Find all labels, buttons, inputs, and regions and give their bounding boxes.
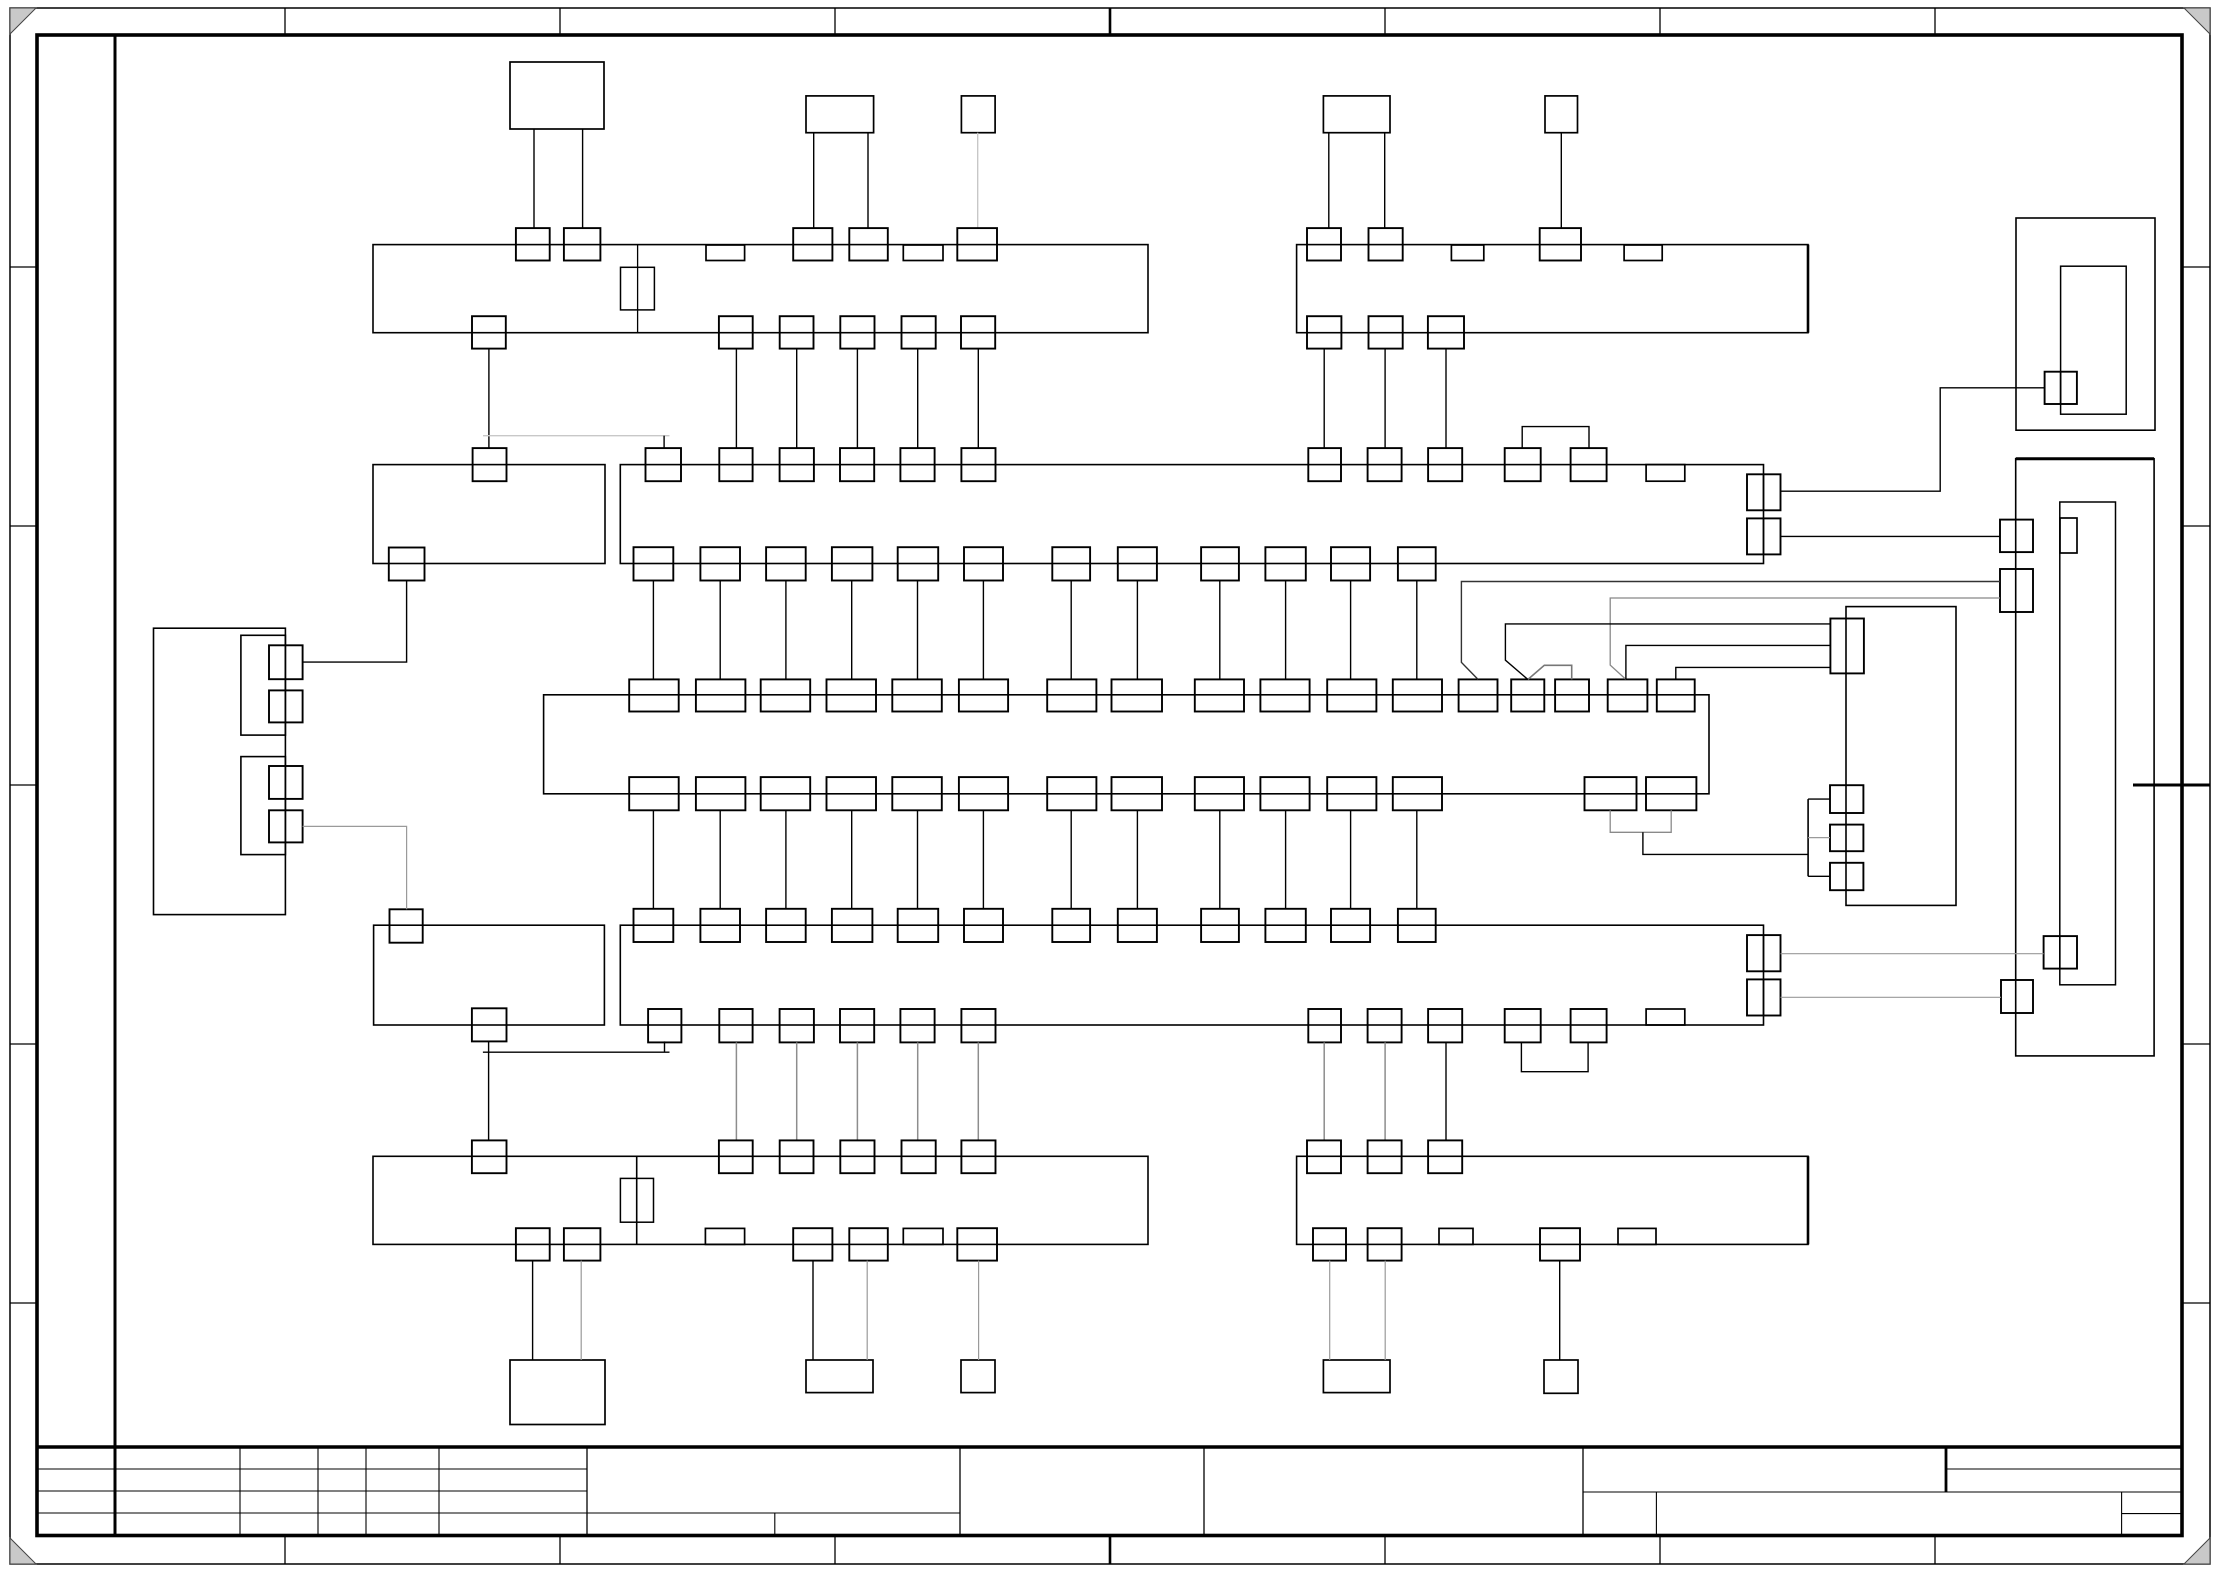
pin B2 bottom 7 xyxy=(1052,547,1090,580)
wire D2 bottom 9 down xyxy=(1445,1042,1447,1140)
pin A1 top 4 xyxy=(849,228,888,260)
pin B2 top 10 xyxy=(1505,448,1541,481)
pin K4 xyxy=(1830,863,1863,890)
module A1 body xyxy=(373,245,1148,333)
pin D2 bottom 5 xyxy=(900,1009,934,1042)
pin E2 top 2 xyxy=(1368,1140,1402,1173)
pin H2 inner bottom xyxy=(2044,936,2077,969)
wire A1.1 to B1 via node xyxy=(488,349,490,449)
module A2 right edge accent xyxy=(1807,245,1810,333)
pin E1 top 6 xyxy=(961,1140,995,1173)
pin B2 top 6 xyxy=(961,448,995,481)
pin A2 top 3 xyxy=(1540,228,1581,260)
connector box X3 small xyxy=(961,96,995,133)
pin K3 xyxy=(1830,825,1863,852)
pin D2 top 11 xyxy=(1331,909,1370,942)
wire from jumper C13-14 to K bracket xyxy=(1643,832,1808,854)
module E1 internal divider xyxy=(636,1156,638,1244)
top border column tick 2 xyxy=(559,8,561,35)
pin B2 bottom 3 xyxy=(766,547,806,580)
wire D2 bottom 7 down grey xyxy=(1323,1042,1325,1140)
pin B2 bottom 5 xyxy=(898,547,939,580)
pin B2 top 9 xyxy=(1428,448,1462,481)
wire D2 bottom 5 down grey xyxy=(917,1042,919,1140)
pin D2 right side upper pair xyxy=(1747,935,1781,971)
pin G2 xyxy=(269,690,303,722)
wire C bottom 11 down xyxy=(1350,810,1352,909)
stub bracket to K4 xyxy=(1808,875,1830,877)
right border row tick thick at y785 xyxy=(2133,784,2210,787)
pin C bottom 2 xyxy=(696,777,746,810)
wire E2 to X9 pin2 grey xyxy=(1384,1261,1386,1360)
pin A1 top 5 xyxy=(957,228,997,260)
left border row tick 3 xyxy=(10,784,37,786)
title block column at x775 lower xyxy=(774,1513,776,1536)
pin D2 top 3 xyxy=(766,909,806,942)
corner trim triangle top-left xyxy=(10,8,36,34)
wire B2 bottom 1 down xyxy=(652,581,654,680)
title block small cell row at y1514 xyxy=(2122,1513,2182,1515)
module E1 body xyxy=(373,1156,1148,1244)
pin C top 14 xyxy=(1511,679,1544,711)
title block row line 3 xyxy=(37,1512,960,1514)
left reference column divider xyxy=(114,35,117,1536)
title block column at x1204 xyxy=(1203,1447,1205,1536)
jumper bracket under pins C bottom 13-14 grey xyxy=(1610,810,1671,832)
corner trim triangle bottom-left xyxy=(10,1538,36,1564)
pin E2 bottom 1 xyxy=(1313,1228,1346,1260)
branch wire tick up to pin D2 bottom 1 xyxy=(664,1041,666,1052)
title block thick divider at x1946 xyxy=(1945,1447,1948,1492)
wire B2 bottom 4 down xyxy=(851,581,853,680)
pin B2 right side upper pair xyxy=(1747,474,1781,510)
pin D2 top 10 xyxy=(1265,909,1305,942)
pin H2 left 4 xyxy=(2001,980,2033,1013)
pin D2 top 1 xyxy=(634,909,674,942)
pin D2 top 12 xyxy=(1398,909,1436,942)
pin C bottom 11 xyxy=(1327,777,1376,810)
title block column at x318 xyxy=(317,1447,319,1536)
pin B2 bottom 10 xyxy=(1265,547,1305,580)
wire B2 bottom 8 down xyxy=(1136,581,1138,680)
pin D2 bottom 6 xyxy=(961,1009,995,1042)
module B2 body xyxy=(620,465,1763,564)
wire B2 right lower to H2 pin1 xyxy=(1781,535,2001,537)
pin C bottom 12 xyxy=(1393,777,1442,810)
pin G1 xyxy=(269,645,303,679)
left border row tick 1 xyxy=(10,266,37,268)
stub bracket to K2 xyxy=(1808,798,1830,800)
wire B2 bottom 10 down xyxy=(1285,581,1287,680)
connector box X7 bottom xyxy=(806,1360,873,1393)
pin A2 top 1 xyxy=(1307,228,1341,260)
pin E2 top 1 xyxy=(1307,1140,1341,1173)
wire D2 right lower to H2 pin4 grey xyxy=(1781,996,2002,998)
pin C top 1 xyxy=(629,679,679,711)
title block column at x1583 xyxy=(1582,1447,1584,1536)
pin C top 16 xyxy=(1608,679,1648,711)
panel box H2 top edge accent xyxy=(2016,457,2154,460)
title block column at x366 xyxy=(365,1447,367,1536)
branch wire drop to pin B2 top 1 xyxy=(663,436,665,448)
pin C bottom 1 xyxy=(629,777,679,810)
pin D2 top 8 xyxy=(1118,909,1157,942)
pin C top 4 xyxy=(827,679,877,711)
pin A1 top 3 xyxy=(793,228,832,260)
pin B2 bottom 1 xyxy=(634,547,674,580)
wire B1 bottom to G1 xyxy=(303,581,407,663)
pin B1 bottom xyxy=(389,548,425,581)
wire X1 pin1 down xyxy=(533,129,535,228)
panel box H1 inner rack xyxy=(2061,266,2127,414)
pin E1 bottom 2 xyxy=(564,1228,601,1260)
bus bracket left of K xyxy=(1807,799,1809,876)
wire A2 bottom 1 down xyxy=(1323,349,1325,449)
pin C bottom 5 xyxy=(892,777,942,810)
pin B2 right side upper pair divider xyxy=(1763,474,1765,510)
wire B2 bottom 5 down xyxy=(917,581,919,680)
connector box X5 small xyxy=(1545,96,1578,133)
pin C bottom 3 xyxy=(761,777,811,810)
wire C bottom 5 down xyxy=(917,810,919,909)
wire A1 bottom 6 down xyxy=(977,349,979,449)
wire C bottom 9 down xyxy=(1219,810,1221,909)
top border column tick 5 xyxy=(1384,8,1386,35)
wire X1 pin2 down xyxy=(582,129,584,228)
pin A1 bottom 5 xyxy=(902,316,936,348)
branch wire grey to strip B first pin xyxy=(483,435,670,437)
pin B2 top 7 xyxy=(1308,448,1341,481)
pin E1 top 3 xyxy=(780,1140,814,1173)
pin E1 top 1 xyxy=(472,1140,507,1173)
fuse F2 on module E1 xyxy=(620,1178,653,1222)
title block column at x960 xyxy=(959,1447,961,1536)
pin D1 bottom xyxy=(472,1008,507,1041)
wire B2 right upper to H1 pin xyxy=(1781,388,2045,491)
pin D2 bottom 3 xyxy=(780,1009,814,1042)
wire G4 to D1 top grey xyxy=(303,826,407,909)
pin B2 top 3 xyxy=(780,448,814,481)
pin D2 top 6 xyxy=(964,909,1003,942)
pin D2 bottom 11 xyxy=(1571,1009,1607,1042)
title block column at x439 xyxy=(438,1447,440,1536)
pin A1 bottom 2 xyxy=(719,316,753,348)
wire C bottom 6 down xyxy=(982,810,984,909)
connector box X2 top-middle xyxy=(806,96,874,133)
pin D2 bottom 2 xyxy=(719,1009,752,1042)
pin E1 bottom 5 xyxy=(957,1228,997,1260)
right border row tick 3 xyxy=(2182,1043,2210,1045)
connector box X8 small bottom xyxy=(961,1360,995,1393)
pin E2 bottom stub 2 xyxy=(1618,1228,1656,1244)
wire E1 to X6 pin1 xyxy=(532,1261,534,1360)
pin D2 bottom 10 xyxy=(1505,1009,1541,1042)
pin B2 bottom 11 xyxy=(1331,547,1370,580)
pin B2 bottom 12 xyxy=(1398,547,1436,580)
pin C bottom 6 xyxy=(959,777,1008,810)
module C body xyxy=(544,695,1709,794)
module E2 right edge accent xyxy=(1807,1156,1810,1244)
pin C top 7 xyxy=(1047,679,1096,711)
wire C bottom 1 down xyxy=(652,810,654,909)
pin E1 bottom stub 2 xyxy=(903,1228,943,1244)
bottom border column tick 6 xyxy=(1659,1536,1661,1565)
wire X3 down grey xyxy=(977,133,979,228)
title block row line right section xyxy=(1583,1491,2182,1493)
pin C bottom 10 xyxy=(1260,777,1309,810)
pin C top 12 xyxy=(1393,679,1442,711)
branch wire to strip D2 first pin xyxy=(483,1051,670,1053)
pin E1 top 5 xyxy=(902,1140,936,1173)
wire X4 pin1 down xyxy=(1328,133,1330,228)
corner trim triangle top-right xyxy=(2184,8,2210,34)
pin A2 bottom 1 xyxy=(1307,316,1341,348)
jumper bracket over pins B2.10-B2.11 xyxy=(1522,427,1589,449)
pin D2 bottom 7 xyxy=(1308,1009,1341,1042)
wire from pin C top 17 to K1 xyxy=(1676,667,1831,679)
pin E1 bottom 1 xyxy=(516,1228,550,1260)
pin A2 bottom 2 xyxy=(1369,316,1403,348)
bottom border column tick 5 xyxy=(1384,1536,1386,1565)
title block column at x1656 lower xyxy=(1655,1492,1657,1536)
title block column at x240 xyxy=(239,1447,241,1536)
pin K2 xyxy=(1830,785,1863,813)
pin A1 top stub 2 xyxy=(903,245,943,261)
title block top separator line xyxy=(37,1445,2182,1448)
wire B2 bottom 12 down xyxy=(1416,581,1418,680)
pin A1 bottom 1 xyxy=(472,316,506,348)
top border column tick 1 xyxy=(284,8,286,35)
connector box X1 top-left xyxy=(510,62,604,129)
wire net B from pin C top 14 to K1 xyxy=(1505,624,1830,680)
module A2 body xyxy=(1297,245,1808,333)
wire C bottom 7 down xyxy=(1070,810,1072,909)
pin A2 top stub 2 xyxy=(1624,245,1662,261)
wire B2 bottom 7 down xyxy=(1070,581,1072,680)
pin H2 inner bottom divider xyxy=(2059,936,2061,969)
module D1 body xyxy=(374,925,605,1025)
wire D2 bottom 2 down grey xyxy=(735,1042,737,1140)
pin D2 right side lower pair divider xyxy=(1763,979,1765,1015)
pin B1 top xyxy=(473,448,507,481)
wire D2 bottom 6 down grey xyxy=(977,1042,979,1140)
pin E1 top 4 xyxy=(840,1140,874,1173)
panel box H1 outline xyxy=(2016,218,2155,430)
connector box X9 bottom xyxy=(1323,1360,1390,1393)
wire C bottom 10 down xyxy=(1285,810,1287,909)
right border row tick 2 xyxy=(2182,525,2210,527)
wire C bottom 2 down xyxy=(719,810,721,909)
wire A2 bottom 2 down xyxy=(1384,349,1386,449)
pin B2 bottom 4 xyxy=(832,547,873,580)
wire D1 bottom down to E1 xyxy=(488,1041,490,1141)
pin E1 bottom 4 xyxy=(849,1228,888,1260)
fuse F1 on module A1 xyxy=(621,267,655,310)
pin C top 15 xyxy=(1555,679,1589,711)
pin A1 top stub 1 xyxy=(706,245,745,261)
connector box X6 bottom-left xyxy=(510,1360,605,1425)
twisted-pair marker between pins C top 14-15 xyxy=(1528,665,1572,679)
pin E1 top 2 xyxy=(719,1140,753,1173)
pin D2 top 4 xyxy=(832,909,873,942)
wire E2 to X9 pin1 grey xyxy=(1329,1261,1331,1360)
pin A2 top stub 1 xyxy=(1451,245,1483,261)
bottom border column tick 3 xyxy=(834,1536,836,1565)
pin C bottom 9 xyxy=(1195,777,1244,810)
pin C top 5 xyxy=(892,679,942,711)
wire X4 pin2 down xyxy=(1384,133,1386,228)
wire B2 bottom 3 down xyxy=(785,581,787,680)
wire C bottom 3 down xyxy=(785,810,787,909)
pin C top 3 xyxy=(761,679,811,711)
pin K1 xyxy=(1830,619,1864,674)
title block row line 1 xyxy=(37,1468,587,1470)
pin C top 9 xyxy=(1195,679,1244,711)
pin A2 bottom 3 xyxy=(1428,316,1464,348)
pin C bottom 13 xyxy=(1585,777,1637,810)
top border column tick 3 xyxy=(834,8,836,35)
module A1 internal divider xyxy=(637,245,639,333)
pin A1 bottom 3 xyxy=(780,316,814,348)
pin H2 left 2 xyxy=(2000,569,2033,612)
jumper bracket under pins D2.10-D2.11 xyxy=(1521,1042,1588,1071)
top border column tick 7 xyxy=(1934,8,1936,35)
bottom border column tick 4 xyxy=(1109,1536,1112,1565)
panel box H2 outline xyxy=(2016,459,2154,1056)
top border column tick 6 xyxy=(1659,8,1661,35)
pin G4 xyxy=(269,810,303,842)
pin D2 bottom 4 xyxy=(840,1009,874,1042)
pin B2 bottom 6 xyxy=(964,547,1003,580)
pin H1 xyxy=(2045,372,2077,404)
panel box H2 inner rack xyxy=(2060,502,2116,985)
pin B2 right side lower pair divider xyxy=(1763,518,1765,554)
left border row tick 2 xyxy=(10,525,37,527)
wire C bottom 8 down xyxy=(1136,810,1138,909)
pin B2 top stub xyxy=(1646,465,1685,482)
pin C bottom 7 xyxy=(1047,777,1096,810)
pin D2 bottom 8 xyxy=(1368,1009,1402,1042)
pin C top 17 xyxy=(1657,679,1695,711)
wire E1 to X7 pin2 grey xyxy=(866,1261,868,1360)
module E2 body xyxy=(1297,1156,1808,1244)
wire D2 right upper to H2 inner bottom pin grey xyxy=(1781,953,2044,955)
wire D2 bottom 3 down grey xyxy=(796,1042,798,1140)
pin A1 bottom 6 xyxy=(961,316,995,348)
pin H2 left 1 xyxy=(2000,520,2033,553)
pin B2 bottom 8 xyxy=(1118,547,1157,580)
pin D1 top xyxy=(390,909,423,942)
pin D2 right side upper pair divider xyxy=(1763,935,1765,971)
pin D2 bottom stub xyxy=(1646,1009,1685,1025)
pin C top 8 xyxy=(1112,679,1163,711)
pin E1 bottom stub 1 xyxy=(705,1228,744,1244)
wire A1 bottom 3 down xyxy=(796,349,798,449)
wire A1 bottom 5 down xyxy=(917,349,919,449)
wire D2 bottom 4 down grey xyxy=(856,1042,858,1140)
wire X2 pin2 down xyxy=(867,133,869,228)
pin C bottom 4 xyxy=(827,777,877,810)
wire E2 to X10 xyxy=(1559,1261,1561,1360)
rack box G slot 1 xyxy=(241,635,286,735)
pin D2 top 2 xyxy=(700,909,740,942)
pin B2 top 8 xyxy=(1368,448,1402,481)
corner trim triangle bottom-right xyxy=(2184,1538,2210,1564)
wire A1 bottom 2 down xyxy=(735,349,737,449)
pin C top 6 xyxy=(959,679,1008,711)
bottom border column tick 2 xyxy=(559,1536,561,1565)
wire E1 to X8 grey xyxy=(978,1261,980,1360)
pin H2 inner top xyxy=(2060,518,2077,553)
pin E2 bottom stub 1 xyxy=(1439,1228,1473,1244)
wire D2 bottom 8 down grey xyxy=(1384,1042,1386,1140)
pin B2 top 1 xyxy=(646,448,682,481)
wire C bottom 4 down xyxy=(851,810,853,909)
pin B2 right side lower pair xyxy=(1747,518,1781,554)
pin G3 xyxy=(269,766,303,799)
pin E2 bottom 2 xyxy=(1368,1228,1402,1260)
wire A1 bottom 4 down xyxy=(856,349,858,449)
connector box X10 small bottom xyxy=(1544,1360,1578,1393)
wire from pin C top 16 to K1 xyxy=(1626,645,1831,679)
pin D2 top 7 xyxy=(1052,909,1090,942)
bottom border column tick 7 xyxy=(1934,1536,1936,1565)
rack box G outline xyxy=(154,628,286,914)
pin A2 top 2 xyxy=(1369,228,1403,260)
module B1 body xyxy=(373,465,605,564)
wire B2 bottom 2 down xyxy=(719,581,721,680)
pin B2 top 5 xyxy=(900,448,934,481)
top border column tick 4 xyxy=(1109,8,1112,35)
pin D2 bottom 1 xyxy=(648,1009,681,1042)
pin C bottom 14 xyxy=(1646,777,1696,810)
left border row tick 5 xyxy=(10,1302,37,1304)
wire B2 bottom 9 down xyxy=(1219,581,1221,680)
wire B2 bottom 11 down xyxy=(1350,581,1352,680)
pin C top 2 xyxy=(696,679,746,711)
junction box K outline xyxy=(1846,607,1956,906)
wire net C from pin C top 16 to H2 pin2 xyxy=(1610,598,2000,679)
wire C bottom 12 down xyxy=(1416,810,1418,909)
right border row tick 1 xyxy=(2182,266,2210,268)
pin B2 bottom 2 xyxy=(700,547,740,580)
wire B2 bottom 6 down xyxy=(982,581,984,680)
pin B2 top 11 xyxy=(1571,448,1607,481)
wire net A from pin C top 13 to H2 pin2 xyxy=(1461,582,2000,680)
title block column at x587 xyxy=(586,1447,588,1536)
wire X2 pin1 down xyxy=(813,133,815,228)
pin C top 10 xyxy=(1260,679,1309,711)
pin B2 top 2 xyxy=(719,448,752,481)
pin B2 bottom 9 xyxy=(1201,547,1239,580)
wire A2 bottom 3 down xyxy=(1445,349,1447,449)
pin C top 11 xyxy=(1327,679,1376,711)
rack box G slot 2 xyxy=(241,757,286,855)
bottom border column tick 1 xyxy=(284,1536,286,1565)
pin D2 bottom 9 xyxy=(1428,1009,1462,1042)
wire X5 down xyxy=(1560,133,1562,228)
pin C top 13 xyxy=(1459,679,1498,711)
pin H1 divider xyxy=(2060,372,2062,404)
connector box X4 xyxy=(1323,96,1390,133)
title block row line 2 xyxy=(37,1490,587,1492)
wire E1 to X6 pin2 grey xyxy=(580,1261,582,1360)
title block row line right corner cell xyxy=(1946,1468,2182,1470)
pin E2 bottom 3 xyxy=(1540,1228,1580,1260)
title block small cell divider at x2122 xyxy=(2121,1492,2123,1536)
pin E2 top 3 xyxy=(1428,1140,1462,1173)
module D2 body xyxy=(620,925,1763,1025)
